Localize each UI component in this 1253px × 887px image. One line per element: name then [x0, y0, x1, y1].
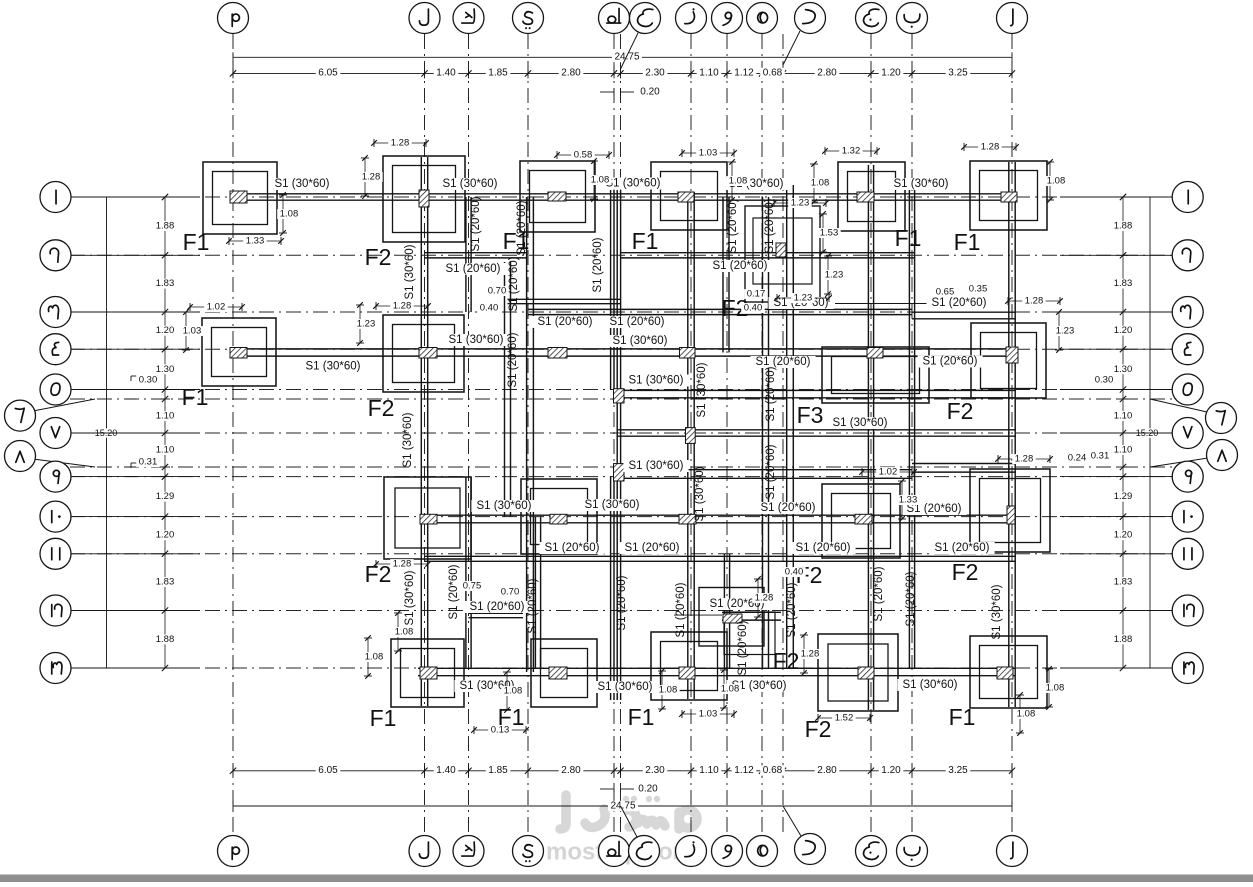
- footing F2 axis A row 10: [970, 469, 1050, 552]
- dimension 1.83 right: [1111, 577, 1135, 587]
- grid line row 7: [70, 432, 1180, 434]
- beam S1 30x60 row 9: [617, 469, 912, 471]
- dimension 1.03 at 192,331: [185, 312, 187, 350]
- svg-text:1.28: 1.28: [393, 559, 412, 570]
- dimension 1.08 at 513,691: [506, 672, 508, 710]
- label S1 (30*60) at 656,466: [624, 460, 689, 472]
- dimension 1.08 at 600,180: [593, 161, 595, 199]
- axis circle heh top: [747, 3, 778, 34]
- dimension 2.80 bottom: [559, 765, 584, 775]
- beam S1 20x60 axis K bottom: [465, 477, 467, 668]
- svg-text:S1 (30*60): S1 (30*60): [629, 460, 684, 472]
- svg-text:S1 (30*60): S1 (30*60): [613, 335, 668, 347]
- column A r13: [997, 667, 1013, 679]
- svg-text:S1 (20*60): S1 (20*60): [508, 256, 520, 311]
- dimension row left: [164, 197, 166, 668]
- grid line row 8: [70, 466, 1180, 468]
- dimension 1.20 left: [153, 530, 177, 540]
- svg-text:1.28: 1.28: [391, 138, 410, 149]
- label S1 (20*60) at 783,362: [751, 356, 816, 368]
- footing F1 axis M row 1: [203, 162, 277, 234]
- svg-text:S1 (20*60): S1 (20*60): [470, 601, 525, 613]
- grid line row 3: [70, 311, 1180, 313]
- column A r10: [1007, 506, 1015, 524]
- svg-text:1.88: 1.88: [156, 634, 175, 645]
- svg-text:F1: F1: [954, 229, 981, 255]
- svg-text:1.83: 1.83: [1114, 278, 1133, 289]
- beam S1 20x60 row 12: [722, 611, 781, 613]
- column x866 r13: [858, 667, 874, 679]
- svg-text:0.13: 0.13: [491, 725, 510, 736]
- label S1 (20*60) at 962,548: [930, 542, 995, 554]
- axis circle row 12 right: [1060, 610, 1172, 612]
- column A r1: [1001, 192, 1017, 202]
- svg-text:S1 (20*60): S1 (20*60): [448, 564, 460, 619]
- beam S1 20x60 axis T upper: [610, 190, 612, 390]
- dimension 1.33 at 255,241: [229, 240, 281, 242]
- dimension 1.29 left: [153, 492, 177, 502]
- svg-text:0.30: 0.30: [1095, 375, 1114, 386]
- svg-text:S1 (20*60): S1 (20*60): [675, 582, 687, 637]
- label S1 (30*60) at 470,184: [437, 178, 502, 190]
- beam S1 30x60 row 3 right: [912, 311, 1016, 313]
- dimension 0.70 at 497,291: [485, 286, 509, 296]
- footing F2 axis L row 10: [384, 477, 471, 559]
- dimension 1.08 at 289,214: [282, 195, 284, 233]
- beam S1 20x60 axis B: [908, 190, 910, 668]
- axis circle row 7 right: [1060, 432, 1172, 434]
- dimension 1.12 bottom: [732, 765, 757, 775]
- svg-text:F1: F1: [370, 705, 397, 731]
- beam S1 20x60 axis W bottom: [723, 554, 725, 668]
- svg-text:1.10: 1.10: [699, 68, 719, 79]
- footing F1 axis Z row 1: [651, 162, 727, 230]
- beam S1 30x60 row 10: [420, 514, 1016, 516]
- svg-text:1.20: 1.20: [1114, 530, 1133, 541]
- grid line row 6: [70, 398, 1180, 400]
- beam S1 20x60 axis H5: [762, 197, 764, 668]
- svg-text:1.83: 1.83: [156, 577, 175, 588]
- dimension 1.40 top: [434, 68, 459, 78]
- dimension 1.88 left: [153, 635, 177, 645]
- dimension 1.88 left: [153, 221, 177, 231]
- svg-text:1.28: 1.28: [801, 649, 820, 660]
- grid line row 11: [70, 553, 1180, 555]
- dimension row right: [1122, 197, 1124, 668]
- axis circle row 11 right: [1060, 553, 1172, 555]
- beam S1 30x60 row 7: [617, 429, 1016, 431]
- svg-text:S1 (30*60): S1 (30*60): [443, 178, 498, 190]
- dimension 1.10 top: [697, 68, 722, 78]
- axis circle ta bottom: [599, 836, 630, 867]
- dimension 1.20 right: [1111, 326, 1135, 336]
- grid line h5: [761, 34, 763, 836]
- svg-text:1.20: 1.20: [156, 530, 175, 541]
- label S1 (30*60) at 333,366.5: [300, 361, 365, 373]
- grid line k: [468, 34, 470, 836]
- grid line t: [613, 34, 615, 836]
- axis circle row 8 right: [1150, 458, 1208, 467]
- beam S1 30x60 row 4: [238, 348, 1016, 350]
- dimension 1.10 left: [153, 411, 177, 421]
- axis circle row 1 left: [70, 196, 200, 198]
- label S1 (20*60) at 801,303: [769, 297, 834, 309]
- label S1 (30*60) at 930,685: [898, 679, 963, 691]
- svg-text:1.23: 1.23: [357, 319, 376, 330]
- dimension 1.03 at 708,153: [682, 152, 734, 154]
- svg-text:1.20: 1.20: [156, 325, 175, 336]
- axis circle ba bottom: [897, 836, 928, 867]
- svg-text:S1 (20*60): S1 (20*60): [610, 316, 665, 328]
- dimension 1.83 left: [153, 279, 177, 289]
- column L r4: [419, 348, 437, 359]
- svg-text:S1 (20*60): S1 (20*60): [507, 332, 519, 387]
- svg-text:S1 (20*60): S1 (20*60): [923, 356, 978, 368]
- svg-text:S1 (20*60): S1 (20*60): [538, 316, 593, 328]
- axis circle row 4 right: [1060, 348, 1172, 350]
- svg-text:1.83: 1.83: [1114, 577, 1133, 588]
- dimension 0.35 at 978,289: [966, 284, 990, 294]
- svg-text:F1: F1: [503, 228, 530, 254]
- beam S1 20x60 axis T lower: [610, 476, 612, 700]
- column Z r7: [686, 428, 696, 444]
- axis circle row 1 right: [1060, 196, 1172, 198]
- dimension 1.08 at 738,181: [731, 162, 733, 200]
- svg-text:1.23: 1.23: [791, 198, 810, 209]
- dimension 1.40 bottom: [434, 765, 459, 775]
- svg-text:S1 (30*60): S1 (30*60): [598, 681, 653, 693]
- svg-text:S1 (20*60): S1 (20*60): [616, 575, 628, 630]
- dimension 2.80 top: [815, 68, 840, 78]
- column W r12: [723, 614, 742, 623]
- svg-text:1.03: 1.03: [699, 148, 718, 159]
- svg-text:S1 (20*60): S1 (20*60): [625, 542, 680, 554]
- extension line row 12: [674, 614, 722, 616]
- beam S1 20x60 axis J: [867, 165, 869, 710]
- column x558 r10: [550, 514, 567, 524]
- axis circle row 4 left: [70, 348, 200, 350]
- svg-text:0.30: 0.30: [139, 375, 158, 386]
- axis circle row 7 left: [70, 432, 200, 434]
- grid line l: [424, 34, 426, 836]
- axis circle row 12 left: [70, 610, 200, 612]
- column x558 r4: [548, 348, 567, 359]
- label S1 (20*60) at 652,548: [620, 542, 685, 554]
- svg-text:1.20: 1.20: [881, 68, 901, 79]
- svg-text:0.68: 0.68: [763, 765, 783, 776]
- dimension 1.33 at 908,500: [901, 481, 903, 519]
- axis circle row 9 right: [1060, 476, 1172, 478]
- beam S1 20x60 axis K top: [465, 197, 467, 312]
- dimension 3.25 bottom: [946, 765, 971, 775]
- svg-text:1.02: 1.02: [879, 467, 898, 478]
- svg-text:S1 (20*60): S1 (20*60): [765, 444, 777, 499]
- grid line j: [870, 34, 872, 836]
- dimension 3.25 top: [946, 68, 971, 78]
- axis circle row 2 left: [70, 254, 200, 256]
- footing F1 x558 row 10: [521, 479, 597, 554]
- grid line b: [911, 34, 913, 836]
- column TH r5-6: [614, 389, 625, 403]
- label S1 (20*60) at 788,508: [756, 502, 821, 514]
- svg-text:0.24: 0.24: [1068, 453, 1087, 464]
- svg-text:S1 (20*60): S1 (20*60): [527, 578, 539, 633]
- grid line row 4: [70, 348, 1180, 350]
- grid line m: [232, 34, 234, 836]
- svg-text:0.70: 0.70: [501, 587, 520, 598]
- label S1 (20*60) at 950,361.5: [918, 356, 983, 368]
- footing F1 x860 row 10: [822, 484, 900, 558]
- footing F1 axis A row 1: [970, 161, 1047, 230]
- beam S1 20x60 axis W top: [722, 197, 724, 353]
- watermark mostaql logo: [560, 795, 697, 829]
- dimension total 24.75 bottom: [233, 805, 1012, 807]
- footing F2 x875 row 5: [822, 347, 929, 403]
- beam S1 20x60 row 11: [425, 555, 1017, 557]
- footing F1 x860 row 1: [838, 162, 905, 231]
- dimension 0.68 top: [760, 68, 785, 78]
- label S1 (30*60) at 302,184: [269, 178, 334, 190]
- svg-text:S1 (30*60): S1 (30*60): [402, 412, 414, 467]
- footing F1 axis A row 13: [970, 636, 1047, 708]
- beam S1 30x60 row 13: [418, 667, 1016, 669]
- dimension 1.08 at 820,183: [813, 164, 815, 202]
- dimension 1.02 at 888,472: [862, 471, 914, 473]
- axis circle ha bottom: [621, 806, 638, 837]
- dimension 1.20 bottom: [879, 765, 904, 775]
- svg-text:1.08: 1.08: [721, 684, 740, 695]
- axis circle lam top: [409, 3, 440, 34]
- svg-text:1.08: 1.08: [504, 686, 523, 697]
- svg-text:S1 (20*60): S1 (20*60): [727, 198, 739, 253]
- label S1 (20*60) at 473,269: [440, 263, 505, 275]
- svg-text:1.10: 1.10: [156, 445, 175, 456]
- svg-text:1.53: 1.53: [820, 228, 839, 239]
- dimension 1.23 at 834,275: [827, 256, 829, 294]
- label S1 (30*60) at 756,184: [724, 178, 789, 190]
- svg-text:S1 (30*60): S1 (30*60): [894, 178, 949, 190]
- dimension 1.08 at 1055,688: [1048, 669, 1050, 707]
- column TH r8-9: [614, 464, 625, 481]
- column x558 r13: [549, 667, 567, 679]
- dimension 1.08 at 668,690: [661, 671, 663, 709]
- svg-text:S1 (30*60): S1 (30*60): [306, 361, 361, 373]
- beam S1 20x60 row 2 right: [620, 252, 914, 254]
- svg-text:S1 (20*60): S1 (20*60): [737, 620, 749, 675]
- dimension 1.28 at 810,654: [803, 635, 805, 673]
- dimension 1.28 at 371,177: [364, 158, 366, 196]
- svg-text:1.88: 1.88: [1114, 221, 1133, 232]
- svg-text:0.31: 0.31: [1091, 451, 1110, 462]
- dimension 1.53 at 829,233: [822, 214, 824, 252]
- label S1 (30*60) at 504,506: [471, 500, 536, 512]
- svg-text:1.20: 1.20: [1114, 325, 1133, 336]
- dimension 1.28 at 402,306: [376, 305, 428, 307]
- svg-text:2.30: 2.30: [645, 765, 665, 776]
- svg-text:1.23: 1.23: [825, 270, 844, 281]
- label S1 (30*60) at 640,341: [608, 335, 673, 347]
- footing F2 axis L row 4: [383, 315, 464, 392]
- column A r4: [1006, 347, 1018, 363]
- svg-text:1.88: 1.88: [156, 221, 175, 232]
- svg-text:1.08: 1.08: [1047, 176, 1066, 187]
- footing F1 x558 row 1: [520, 161, 595, 232]
- dimension 1.08 at 1026,714: [1019, 695, 1021, 733]
- label S1 (30*60) at 625,687: [593, 681, 658, 693]
- axis circle kaf top: [453, 3, 484, 34]
- dimension 1.32 at 851,151: [825, 150, 877, 152]
- dimension 1.08 at 1056,181: [1049, 162, 1051, 200]
- dimension 1.02 at 216,307: [190, 306, 242, 308]
- svg-text:S1 (20*60): S1 (20*60): [446, 263, 501, 275]
- svg-text:0.40: 0.40: [744, 303, 763, 314]
- label S1 (20*60) at 959,303: [927, 297, 992, 309]
- svg-text:S1 (30*60): S1 (30*60): [694, 466, 706, 521]
- svg-text:6.05: 6.05: [318, 765, 338, 776]
- column x866 r1: [857, 192, 874, 202]
- svg-text:S1 (30*60): S1 (30*60): [585, 499, 640, 511]
- beam S1 20x60 row 2 left: [425, 252, 528, 254]
- svg-text:S1 (30*60): S1 (30*60): [696, 362, 708, 417]
- svg-text:1.10: 1.10: [699, 765, 719, 776]
- axis circle heh bottom: [747, 836, 778, 867]
- svg-text:0.58: 0.58: [574, 150, 593, 161]
- svg-text:F1: F1: [182, 384, 209, 410]
- axis circle ya bottom: [513, 836, 544, 867]
- svg-text:F2: F2: [947, 398, 974, 424]
- svg-text:S1 (30*60): S1 (30*60): [991, 584, 1003, 639]
- svg-text:1.12: 1.12: [734, 68, 754, 79]
- svg-text:S1 (30*60): S1 (30*60): [275, 178, 330, 190]
- svg-text:1.33: 1.33: [899, 495, 918, 506]
- label S1 (30*60) at 612,505: [580, 499, 645, 511]
- svg-text:1.28: 1.28: [393, 301, 412, 312]
- label S1 (20*60) at 565,322: [533, 316, 598, 328]
- svg-text:1.10: 1.10: [1114, 411, 1133, 422]
- svg-text:S1 (30*60): S1 (30*60): [449, 334, 504, 346]
- footing F2 axis L row 1: [383, 156, 465, 242]
- svg-text:1.08: 1.08: [395, 627, 414, 638]
- dimension 0.70 at 510,592: [498, 587, 522, 597]
- dimension 1.30 left: [153, 364, 177, 374]
- axis circle row 3 left: [70, 311, 200, 313]
- column x558 r1: [548, 192, 566, 201]
- dimension 1.28 at 764,598: [757, 579, 759, 617]
- label S1 (20*60) at 823,548: [791, 542, 856, 554]
- axis circle row 6 right: [1150, 399, 1207, 412]
- dimension row top: [233, 72, 1012, 74]
- label S1 (30*60) at 476,340: [443, 334, 508, 346]
- beam S1 20x60 x541 bottom: [534, 517, 536, 668]
- grid line row 12: [70, 610, 1180, 612]
- svg-text:1.03: 1.03: [699, 709, 718, 720]
- column Z r1: [678, 192, 694, 202]
- beam S1 30x60 axis A: [1008, 162, 1010, 707]
- column Z r13: [679, 667, 695, 679]
- dimension 1.88 right: [1111, 221, 1135, 231]
- svg-text:F2: F2: [773, 648, 800, 674]
- dimension 0.30 right: [1092, 375, 1116, 385]
- svg-text:3.25: 3.25: [948, 68, 968, 79]
- dimension 1.10 right: [1111, 445, 1135, 455]
- label S1 (20*60) at 740,266: [708, 260, 773, 272]
- dimension 1.08 at 404,632: [397, 613, 399, 651]
- svg-text:2.30: 2.30: [645, 68, 665, 79]
- beam S1 20x60 x505: [504, 262, 506, 517]
- dimension 0.75 at 472,586: [460, 581, 484, 591]
- label S1 (20*60) at 637,322: [605, 316, 670, 328]
- svg-text:24.75: 24.75: [614, 52, 639, 63]
- column M r4: [230, 348, 247, 359]
- svg-text:S1 (20*60): S1 (20*60): [932, 297, 987, 309]
- label S1 (20*60) at 572,548: [540, 542, 605, 554]
- column D r2: [776, 243, 786, 257]
- svg-text:1.08: 1.08: [1017, 709, 1036, 720]
- dimension 0.58 at 583,155: [557, 154, 609, 156]
- grid line a: [1011, 34, 1013, 836]
- svg-text:0.65: 0.65: [936, 287, 955, 298]
- svg-text:1.28: 1.28: [1025, 296, 1044, 307]
- column x866 r10: [855, 514, 872, 524]
- axis circle row 13 right: [1060, 667, 1172, 669]
- dimension 2.30 top: [643, 68, 668, 78]
- dimension 1.03 at 708,714: [682, 713, 734, 715]
- svg-text:1.33: 1.33: [246, 236, 265, 247]
- grid line row 9: [70, 476, 1180, 478]
- footing F2 axis W row 12: [699, 588, 764, 647]
- beam S1 20x60 axis D: [786, 185, 788, 668]
- grid line y: [527, 34, 529, 836]
- axis circle jeem bottom: [856, 836, 887, 867]
- column M r1: [230, 191, 247, 203]
- svg-text:S1 (20*60): S1 (20*60): [545, 542, 600, 554]
- axis circle row 9 left: [70, 476, 200, 478]
- label S1 (20*60) at 934,509: [902, 503, 967, 515]
- beam S1 30x60 axis H7: [616, 190, 618, 700]
- svg-text:2.80: 2.80: [561, 68, 581, 79]
- grid line row 2: [70, 254, 1180, 256]
- bottom gray bar: [0, 875, 1253, 883]
- svg-text:1.30: 1.30: [1114, 364, 1133, 375]
- beam S1 20x60 row 12 left: [469, 612, 524, 614]
- dimension 1.52 at 844,718: [818, 717, 870, 719]
- svg-text:F1: F1: [632, 228, 659, 254]
- svg-text:S1 (20*60): S1 (20*60): [592, 237, 604, 292]
- svg-text:S1 (20*60): S1 (20*60): [765, 366, 777, 421]
- grid line w: [726, 34, 728, 836]
- svg-text:1.08: 1.08: [365, 652, 384, 663]
- dimension 1.30 right: [1111, 364, 1135, 374]
- svg-text:6.05: 6.05: [318, 68, 338, 79]
- svg-text:1.20: 1.20: [881, 765, 901, 776]
- svg-text:1.30: 1.30: [156, 364, 175, 375]
- dimension 0.30 left: [130, 376, 132, 381]
- svg-text:0.40: 0.40: [480, 303, 499, 314]
- svg-text:1.85: 1.85: [488, 68, 508, 79]
- dimension 0.13 at 500,730: [474, 729, 526, 731]
- svg-text:S1 (20*60): S1 (20*60): [761, 502, 816, 514]
- dimension 0.31 left: [130, 463, 132, 468]
- svg-text:1.28: 1.28: [362, 172, 381, 183]
- dimension total 15.20 right: [1149, 197, 1151, 668]
- axis circle row 5 left: [70, 389, 200, 391]
- dimension 1.28 at 990,147: [964, 146, 1016, 148]
- svg-text:0.70: 0.70: [488, 286, 507, 297]
- svg-text:S1 (30*60): S1 (30*60): [404, 244, 416, 299]
- svg-text:S1 (20*60): S1 (20*60): [873, 566, 885, 621]
- label S1 (20*60) at 497,607: [464, 601, 529, 613]
- svg-text:F1: F1: [183, 229, 210, 255]
